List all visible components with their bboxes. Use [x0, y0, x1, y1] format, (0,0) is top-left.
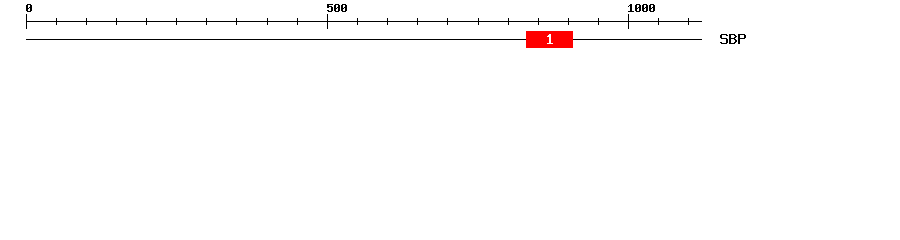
ruler scale labels 0 / 500 / 1000	[26, 4, 655, 12]
feature number 1	[547, 34, 553, 44]
feature box (domain 1)	[526, 31, 573, 48]
sequence line	[26, 39, 702, 40]
major tick 500	[327, 14, 328, 29]
major tick 1000	[628, 14, 629, 29]
background	[0, 0, 900, 58]
minor ticks every 50 units	[56, 18, 689, 25]
ruler axis line	[26, 21, 702, 22]
major tick 0	[26, 14, 27, 29]
track label SBP	[720, 34, 746, 44]
